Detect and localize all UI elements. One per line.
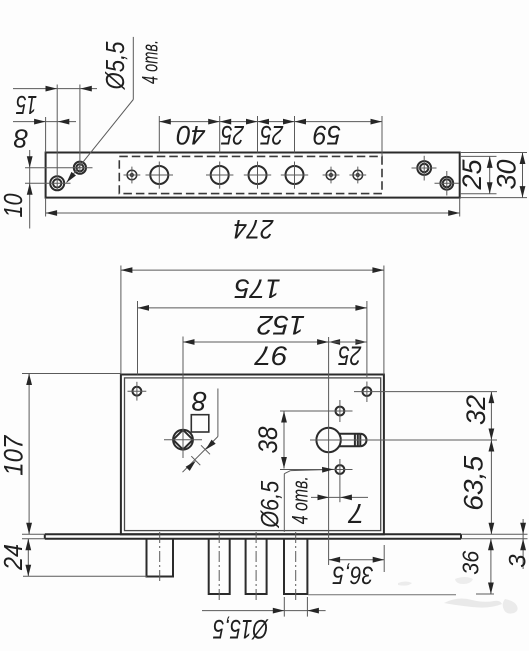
svg-text:25: 25 — [260, 120, 285, 150]
extension line hole B center — [79, 85, 81, 174]
svg-text:107: 107 — [0, 435, 29, 476]
svg-text:152: 152 — [257, 310, 305, 340]
square hole 8x8 — [191, 415, 209, 432]
faceplate left end — [44, 534, 46, 539]
dimension 274 — [46, 210, 460, 244]
rivet hole mid — [323, 167, 340, 184]
dimension 38 — [253, 411, 287, 469]
big hole 2 — [206, 162, 233, 189]
screw hole D (right lower) — [435, 171, 460, 196]
svg-text:25: 25 — [220, 120, 245, 150]
svg-text:15: 15 — [16, 90, 37, 120]
keyhole — [310, 337, 497, 565]
extension line hole A center — [56, 85, 58, 191]
dimension 30 (strip right) — [460, 153, 527, 198]
extension line dashed-body right edge — [381, 116, 383, 156]
svg-text:Ø6,5: Ø6,5 — [257, 481, 285, 529]
dashed lock-body outline inside strip — [119, 156, 382, 193]
svg-text:274: 274 — [234, 214, 275, 244]
dimension 97 — [183, 339, 329, 370]
dimension 175 — [121, 266, 384, 375]
dimension 25 (body) — [329, 339, 367, 370]
lock body outer outline — [121, 375, 384, 535]
dimension 15 — [13, 86, 97, 120]
faceplate edge-on bottom line — [45, 538, 461, 540]
rivet hole right — [349, 167, 366, 184]
boss P1 — [147, 532, 174, 583]
svg-text:40: 40 — [177, 120, 206, 150]
svg-text:24: 24 — [0, 544, 28, 571]
svg-text:4 отв.: 4 отв. — [287, 476, 312, 524]
extension line strip left edge — [45, 117, 47, 153]
svg-text:97: 97 — [254, 340, 288, 370]
svg-text:36: 36 — [457, 551, 483, 575]
lock body inner wall — [125, 378, 381, 531]
big hole 3 — [244, 162, 271, 189]
leader Ø6,5 4 holes — [257, 467, 334, 532]
svg-text:63,5: 63,5 — [459, 455, 489, 511]
svg-text:175: 175 — [234, 273, 281, 303]
dimension Ø15,5 — [202, 597, 326, 644]
dimension 36,5 — [329, 545, 385, 589]
cylinder post P3 — [246, 532, 267, 600]
dimension 36 — [308, 539, 494, 595]
dimension 7 — [311, 495, 368, 529]
faint scan watermark smudges — [398, 577, 518, 614]
dimension 8 — [13, 119, 76, 154]
faceplate strip outline — [46, 153, 460, 198]
svg-text:3: 3 — [505, 554, 529, 568]
dimension 32 — [461, 392, 494, 440]
hole top-right — [354, 382, 497, 403]
svg-text:32: 32 — [461, 395, 491, 425]
leader Ø5,5 4 holes — [64, 37, 162, 185]
square follower hub — [164, 337, 202, 459]
svg-text:Ø5,5: Ø5,5 — [100, 41, 130, 90]
svg-text:8: 8 — [13, 124, 28, 154]
big hole 4 — [281, 162, 308, 189]
svg-text:25: 25 — [338, 340, 363, 370]
rivet hole left — [124, 167, 141, 184]
svg-text:30: 30 — [492, 160, 522, 190]
dimension 24 — [0, 539, 147, 577]
cylinder post P4 — [284, 532, 307, 600]
screw hole B — [25, 162, 93, 174]
label 8 with 45-degree dimension — [183, 386, 218, 472]
hole bottom-right — [280, 459, 353, 502]
dimension 63,5 — [459, 440, 495, 534]
svg-text:59: 59 — [313, 120, 341, 150]
hole top-left — [128, 382, 147, 401]
svg-text:7: 7 — [347, 498, 364, 529]
dimension 10 — [0, 150, 33, 229]
svg-text:Ø15,5: Ø15,5 — [212, 614, 268, 644]
faceplate edge-on top line — [45, 533, 461, 535]
screw hole C (right upper) — [412, 156, 437, 181]
svg-text:10: 10 — [0, 193, 28, 217]
svg-text:38: 38 — [253, 427, 283, 454]
dimension 25 (strip right) — [457, 156, 496, 193]
extension lines big hole centers — [158, 116, 160, 153]
chain dimension line 40/25/25/59 — [159, 119, 382, 150]
svg-text:36,5: 36,5 — [332, 561, 373, 589]
dimension 107 — [0, 374, 121, 539]
svg-text:8: 8 — [192, 386, 207, 416]
dimension 3 — [461, 519, 529, 569]
hole middle-right — [280, 400, 353, 422]
svg-text:25: 25 — [457, 159, 487, 191]
cylinder post P2 — [209, 532, 230, 600]
faceplate right end — [460, 534, 462, 539]
big hole 1 — [146, 162, 174, 189]
dimension 152 — [138, 301, 367, 377]
screw hole A (left, countersunk) — [25, 176, 71, 190]
svg-text:4 отв.: 4 отв. — [137, 40, 162, 84]
extension line strip right edge — [459, 198, 461, 217]
